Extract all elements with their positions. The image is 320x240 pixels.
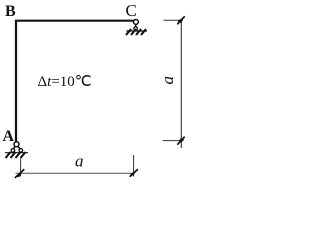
right dimension line [180, 20, 182, 149]
support C: vertical link [135, 24, 137, 26]
svg-text:a: a [75, 152, 84, 171]
support A: ground hatching [6, 152, 26, 158]
support A: right roller circle [19, 149, 23, 153]
support A: triangle legs [13, 146, 21, 150]
bottom dimension: right tick/arrow [130, 169, 138, 177]
support C: lower hinge circle [134, 27, 138, 31]
right dimension: top extension line [163, 19, 182, 21]
support A: left roller circle [11, 149, 15, 153]
bottom dimension: left tick/arrow [15, 169, 25, 178]
support C: hinge circle at member end [133, 19, 138, 24]
svg-text:B: B [5, 3, 16, 20]
right dimension: bottom tick/arrow [177, 137, 184, 145]
bottom dimension: right extension line [133, 155, 135, 177]
svg-text:C: C [126, 1, 137, 20]
svg-text:a: a [158, 76, 177, 85]
support C: ground hatching [126, 29, 146, 35]
svg-text:A: A [3, 128, 15, 145]
right dimension: bottom extension line [163, 140, 182, 142]
svg-text:Δt=10℃: Δt=10℃ [38, 74, 92, 90]
bottom dimension line [16, 172, 135, 174]
right dimension: top tick/arrow [177, 16, 184, 24]
frame members B-A (column) and B-C (beam) [16, 21, 133, 142]
support A: hinge circle at member end [14, 142, 19, 147]
support A: ground line [5, 152, 28, 154]
support C: ground line [126, 30, 147, 32]
bottom dimension: left extension line [20, 159, 22, 177]
